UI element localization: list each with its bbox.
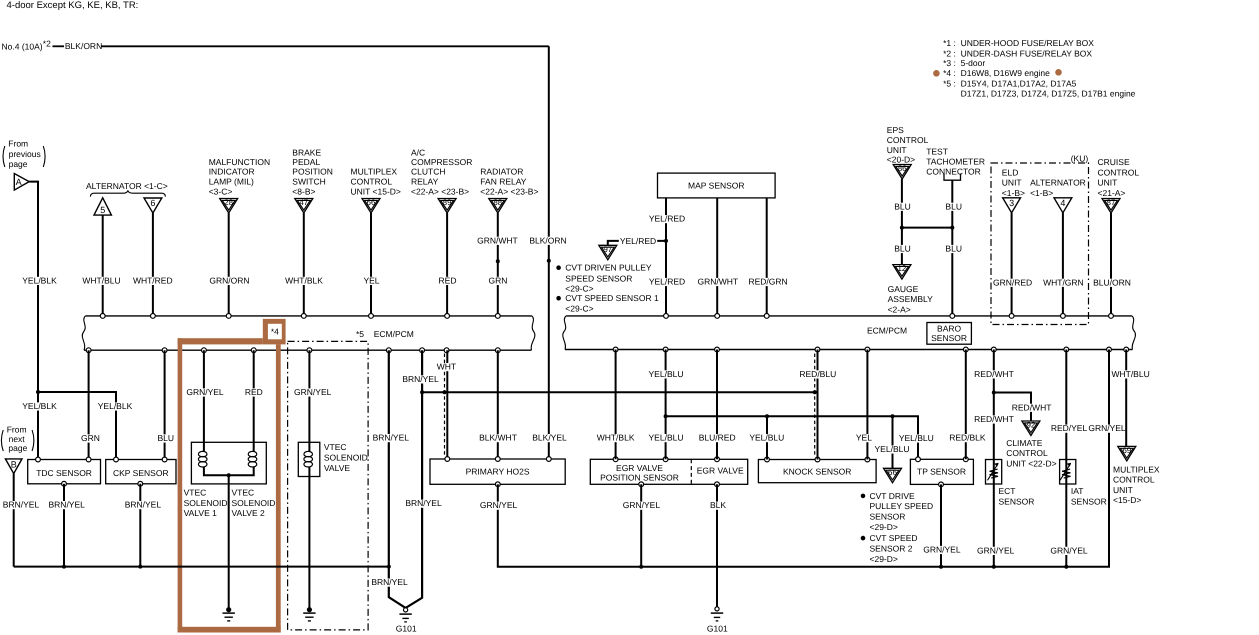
- svg-text:*2 :: *2 :: [943, 48, 956, 58]
- svg-text:UNIT: UNIT: [887, 145, 907, 155]
- svg-text:SPEED SENSOR: SPEED SENSOR: [565, 273, 632, 283]
- svg-text:YEL/BLK: YEL/BLK: [98, 401, 133, 411]
- svg-text:WHT/BLU: WHT/BLU: [1111, 369, 1149, 379]
- connector triangle B: [5, 459, 22, 474]
- label YEL/RED upper: [648, 214, 686, 224]
- wire GRN/ORN MIL to ECM: [228, 213, 230, 316]
- wire RED ECM to VTEC solenoid valve 2: [253, 350, 255, 452]
- svg-text:VALVE 2: VALVE 2: [232, 508, 266, 518]
- ground VTEC valves: [226, 607, 231, 612]
- wire WHT/BLK brake switch to ECM: [303, 213, 305, 316]
- connector triangle 69 multiplex: [1118, 446, 1136, 461]
- label RED/GRN MAP: [748, 277, 789, 287]
- svg-text:BRN/YEL: BRN/YEL: [371, 577, 408, 587]
- svg-text:G101: G101: [707, 623, 728, 633]
- label RED: [438, 275, 458, 285]
- wire YEL/RED triangle 97 branch to MAP wire: [608, 241, 666, 245]
- wire RED A/C relay to ECM: [446, 213, 448, 316]
- svg-text:KNOCK SENSOR: KNOCK SENSOR: [783, 467, 852, 477]
- svg-text:CONTROL: CONTROL: [887, 135, 929, 145]
- svg-text:89: 89: [443, 198, 452, 207]
- svg-text:WHT/BLK: WHT/BLK: [285, 275, 323, 285]
- svg-text:ALTERNATOR <1-C>: ALTERNATOR <1-C>: [86, 181, 168, 191]
- svg-text:SOLENOID: SOLENOID: [324, 453, 368, 463]
- wire RED/WHT branch to climate control: [994, 393, 1031, 422]
- svg-text:RED/WHT: RED/WHT: [1012, 402, 1052, 412]
- svg-text:GRN/WHT: GRN/WHT: [697, 277, 738, 287]
- connector triangle 6 alternator: [144, 198, 162, 213]
- svg-text:*5 :: *5 :: [943, 78, 956, 88]
- primary HO2S box: [430, 459, 565, 484]
- svg-text:BRN/YEL: BRN/YEL: [402, 374, 439, 384]
- svg-text:CLIMATE: CLIMATE: [1006, 438, 1043, 448]
- svg-text:LAMP (MIL): LAMP (MIL): [209, 177, 254, 187]
- wire BLU/RED ECM to EGR valve: [716, 350, 718, 460]
- label GRN/YEL IAT: [1049, 545, 1088, 555]
- svg-text:69: 69: [1122, 446, 1131, 455]
- svg-text:CONTROL: CONTROL: [1098, 168, 1140, 178]
- svg-text:VTEC: VTEC: [232, 487, 255, 497]
- label BLU EPS upper: [893, 201, 912, 211]
- svg-text:G101: G101: [396, 623, 417, 633]
- wire BLK/ORN horizontal run: [102, 45, 549, 47]
- label RED/WHT branch: [1011, 402, 1053, 412]
- EGR pins: [613, 457, 618, 462]
- svg-text:UNDER-HOOD FUSE/RELAY BOX: UNDER-HOOD FUSE/RELAY BOX: [961, 38, 1095, 48]
- svg-text:4: 4: [1060, 198, 1065, 208]
- svg-text:<22-A> <23-B>: <22-A> <23-B>: [411, 187, 469, 197]
- wire GRN/YEL ECM to single VTEC solenoid valve: [308, 350, 310, 452]
- ground single VTEC valve: [307, 607, 312, 612]
- svg-text:D15Y4, D17A1,D17A2, D17A5: D15Y4, D17A1,D17A2, D17A5: [961, 78, 1077, 88]
- junction TP to GRN/YEL bus: [939, 565, 943, 569]
- svg-text:UNIT <15-D>: UNIT <15-D>: [351, 187, 401, 197]
- wire BLK/WHT ECM to HO2S: [497, 350, 499, 459]
- svg-text:BARO: BARO: [937, 323, 961, 333]
- svg-text:TDC SENSOR: TDC SENSOR: [36, 468, 92, 478]
- svg-text:GRN: GRN: [489, 275, 508, 285]
- label GRN/YEL single vtec: [293, 387, 332, 397]
- svg-text:TEST: TEST: [926, 146, 948, 156]
- label YEL/BLK: [21, 275, 58, 285]
- wire YEL multiplex to ECM: [370, 213, 372, 316]
- ground G101 EGR valve: [715, 607, 719, 611]
- svg-text:*4: *4: [271, 326, 279, 336]
- junction IAT to GRN/YEL bus: [1064, 565, 1068, 569]
- svg-text:GRN/YEL: GRN/YEL: [480, 500, 518, 510]
- wire BRN/YEL ECM left ground wire: [389, 350, 406, 608]
- svg-text:EPS: EPS: [887, 125, 904, 135]
- svg-text:No.4 (10A): No.4 (10A): [2, 41, 43, 51]
- svg-text:INDICATOR: INDICATOR: [209, 167, 255, 177]
- MAP sensor box: [658, 173, 776, 198]
- svg-text:*4 :: *4 :: [943, 68, 956, 78]
- svg-text:86: 86: [898, 164, 907, 173]
- junction ECT to GRN/YEL bus: [992, 565, 996, 569]
- svg-text:92: 92: [1026, 421, 1035, 430]
- svg-text:BLU: BLU: [158, 433, 175, 443]
- svg-text:YEL/RED: YEL/RED: [620, 236, 656, 246]
- svg-text:4-door Except KG, KE, KB, TR:: 4-door Except KG, KE, KB, TR:: [7, 0, 139, 11]
- wire common of VTEC valves: [204, 467, 254, 476]
- svg-text:66: 66: [367, 198, 376, 207]
- svg-text:BLK/WHT: BLK/WHT: [479, 433, 517, 443]
- label RED/YEL: [1050, 423, 1088, 433]
- label RED vtec2: [244, 387, 264, 397]
- label GRN/WHT MAP: [697, 277, 740, 287]
- coil single VTEC solenoid valve: [304, 451, 313, 456]
- svg-text:D17Z1, D17Z3, D17Z4, D17Z5, D1: D17Z1, D17Z3, D17Z4, D17Z5, D17B1 engine: [961, 88, 1136, 98]
- label GRN: [488, 275, 509, 285]
- ECM right bottom pins: [613, 347, 618, 352]
- svg-text:<29-D>: <29-D>: [870, 522, 898, 532]
- label BRN/YEL B wire: [2, 500, 40, 510]
- ground bus BRN/YEL left: [14, 566, 389, 568]
- orange highlight box *4: [178, 338, 183, 632]
- svg-text:RED/GRN: RED/GRN: [748, 277, 787, 287]
- label RED/BLK: [948, 433, 986, 443]
- svg-text:BLU: BLU: [945, 201, 962, 211]
- ECT sensor thermistor: [986, 460, 1002, 485]
- label GRN/ORN: [208, 275, 250, 285]
- label BRN/YEL x422: [401, 374, 439, 384]
- svg-text:YEL: YEL: [363, 275, 379, 285]
- connector triangle 12 gauge assembly: [893, 265, 911, 280]
- wire GRN ECM to TDC sensor: [88, 350, 90, 459]
- wire BLU tachometer to ECM: [951, 180, 953, 316]
- svg-text:GRN: GRN: [81, 433, 100, 443]
- svg-text:VTEC: VTEC: [324, 442, 347, 452]
- label WHT/BLK: [284, 275, 324, 285]
- bullet list CVT drive sensors <29-D>: [861, 494, 866, 499]
- label BLU/RED: [698, 433, 737, 443]
- svg-text:UNIT: UNIT: [1002, 178, 1022, 188]
- label BLU: [157, 433, 176, 443]
- svg-text:*2: *2: [43, 38, 51, 48]
- svg-text:ASSEMBLY: ASSEMBLY: [888, 294, 934, 304]
- connector triangle 66 CVT sensors: [884, 468, 902, 483]
- TP sensor box: [910, 459, 973, 484]
- label WHT/BLU: [1110, 369, 1150, 379]
- svg-text:SOLENOID: SOLENOID: [184, 498, 228, 508]
- CKP pins: [114, 457, 119, 462]
- svg-text:CRUISE: CRUISE: [1098, 157, 1130, 167]
- svg-text:PEDAL: PEDAL: [292, 157, 320, 167]
- wire BLK EGR valve to ground: [716, 484, 718, 606]
- svg-text:CVT DRIVEN PULLEY: CVT DRIVEN PULLEY: [565, 263, 652, 273]
- svg-text:*3 :: *3 :: [943, 58, 956, 68]
- svg-text:CONNECTOR: CONNECTOR: [926, 167, 981, 177]
- EGR valve position sensor and EGR valve box: [590, 459, 747, 484]
- ECM/PCM right connector strip: [566, 315, 1132, 317]
- connector triangle 3 ELD: [1003, 198, 1021, 213]
- svg-text:<29-C>: <29-C>: [565, 283, 593, 293]
- junction CKP ground: [138, 565, 142, 569]
- svg-text:5-door: 5-door: [961, 58, 986, 68]
- svg-text:EGR VALVE: EGR VALVE: [616, 463, 663, 473]
- svg-text:PRIMARY HO2S: PRIMARY HO2S: [466, 466, 530, 476]
- label YEL/BLU at EGR: [648, 433, 685, 443]
- label GRN/YEL HO2S: [479, 500, 518, 510]
- wire YEL/BLU ECM to EGR position sensor: [665, 350, 667, 460]
- svg-text:SWITCH: SWITCH: [292, 177, 326, 187]
- svg-text:<3-C>: <3-C>: [209, 187, 233, 197]
- coil VTEC solenoid valve 2: [248, 451, 257, 456]
- IAT sensor thermistor: [1060, 460, 1076, 485]
- svg-text:SENSOR: SENSOR: [931, 333, 967, 343]
- label YEL/BLU upper: [648, 369, 685, 379]
- svg-text:BLK/YEL: BLK/YEL: [532, 433, 567, 443]
- svg-text:YEL: YEL: [856, 433, 872, 443]
- svg-text:YEL/BLK: YEL/BLK: [22, 275, 57, 285]
- svg-text:SENSOR: SENSOR: [1071, 496, 1107, 506]
- svg-text:ECM/PCM: ECM/PCM: [867, 325, 907, 335]
- svg-text:GRN/YEL: GRN/YEL: [977, 545, 1015, 555]
- VTEC solenoid valve 1 and 2 box: [191, 442, 266, 484]
- label BLU EPS lower: [893, 244, 912, 254]
- svg-text:page: page: [8, 443, 27, 453]
- label YEL/RED lower: [648, 277, 686, 287]
- svg-text:VTEC: VTEC: [184, 487, 207, 497]
- label GRN/RED: [992, 277, 1033, 287]
- svg-text:IAT: IAT: [1071, 486, 1084, 496]
- svg-text:CONTROL: CONTROL: [1006, 448, 1048, 458]
- svg-text:SENSOR: SENSOR: [999, 496, 1035, 506]
- svg-text:ECT: ECT: [999, 486, 1016, 496]
- BARO sensor box: [927, 323, 972, 345]
- wire RED/WHT ECM to ECT sensor and bus: [993, 350, 995, 567]
- svg-text:BRN/YEL: BRN/YEL: [405, 498, 442, 508]
- knock pins: [765, 457, 770, 462]
- connector triangle 92 climate control: [1022, 421, 1040, 436]
- connector triangle 86 EPS: [893, 165, 911, 180]
- junction YEL/BLU CVT branch: [891, 414, 895, 418]
- wire GRN/YEL TP to bus: [940, 484, 942, 566]
- svg-text:<21-A>: <21-A>: [1098, 188, 1126, 198]
- wire WHT/BLU alternator-5 to ECM: [102, 215, 104, 316]
- svg-text:RED/YEL: RED/YEL: [1051, 423, 1088, 433]
- svg-text:RADIATOR: RADIATOR: [480, 167, 523, 177]
- junction YEL/BLK branch: [36, 390, 40, 394]
- label RED/WHT lower: [973, 414, 1015, 424]
- svg-text:YEL/BLU: YEL/BLU: [649, 369, 684, 379]
- svg-text:GRN/WHT: GRN/WHT: [477, 235, 518, 245]
- svg-text:BLU/ORN: BLU/ORN: [1093, 277, 1131, 287]
- wire YEL/BLK branch to CKP sensor: [38, 392, 116, 460]
- ground G101 left: [404, 608, 408, 612]
- svg-text:COMPRESSOR: COMPRESSOR: [411, 157, 472, 167]
- svg-text:87: 87: [1107, 198, 1116, 207]
- wire YEL/BLU run to TP sensor: [666, 416, 918, 459]
- label BRN/YEL near G101 right wire: [404, 498, 442, 508]
- svg-text:SENSOR 2: SENSOR 2: [870, 543, 913, 553]
- svg-text:97: 97: [603, 245, 612, 254]
- svg-text:<15-D>: <15-D>: [1113, 495, 1141, 505]
- junction TDC ground: [62, 565, 66, 569]
- svg-text:RELAY: RELAY: [411, 177, 439, 187]
- wire YEL/BLU to triangle 66: [892, 416, 894, 468]
- wire WHT/BLK ECM to EGR position sensor: [615, 350, 617, 460]
- svg-text:TACHOMETER: TACHOMETER: [926, 157, 985, 167]
- svg-text:SOLENOID: SOLENOID: [232, 498, 276, 508]
- svg-text:WHT/RED: WHT/RED: [133, 275, 173, 285]
- wire BLK/ORN vertical drop to HO2S: [548, 46, 550, 459]
- svg-text:BLU: BLU: [894, 201, 911, 211]
- svg-text:28: 28: [224, 198, 233, 207]
- TDC sensor box: [28, 460, 101, 484]
- connector triangle 66 multiplex: [362, 199, 380, 214]
- svg-text:BLU: BLU: [894, 244, 911, 254]
- wire BLU/ORN cruise to ECM: [1110, 213, 1112, 316]
- label YEL/BLK at TDC: [21, 401, 58, 411]
- wire GRN/WHT radiator fan relay to ECM: [497, 213, 499, 316]
- label YEL/RED on branch: [619, 236, 657, 246]
- wire WHT ECM to primary HO2S: [446, 350, 448, 459]
- svg-text:<2-A>: <2-A>: [888, 304, 911, 314]
- svg-text:VALVE: VALVE: [324, 463, 350, 473]
- svg-text:A: A: [16, 177, 22, 187]
- svg-text:CVT SPEED SENSOR 1: CVT SPEED SENSOR 1: [565, 293, 659, 303]
- connector triangle 5 alternator: [94, 198, 111, 215]
- svg-text:RED: RED: [245, 387, 263, 397]
- label GRN/YEL TP: [922, 545, 961, 555]
- junction climate branch: [992, 391, 996, 395]
- label BLK: [709, 500, 727, 510]
- label RED/BLU: [798, 369, 837, 379]
- wire GRN/YEL HO2S to bus: [498, 350, 1109, 567]
- svg-text:From: From: [8, 139, 28, 149]
- svg-text:BRN/YEL: BRN/YEL: [3, 500, 40, 510]
- svg-text:previous: previous: [9, 149, 41, 159]
- svg-text:3: 3: [1009, 198, 1014, 208]
- bullet list CVT sensors <29-C>: [556, 265, 561, 270]
- svg-text:FAN RELAY: FAN RELAY: [480, 177, 526, 187]
- svg-text:RED/WHT: RED/WHT: [974, 414, 1014, 424]
- svg-text:YEL/BLK: YEL/BLK: [22, 401, 57, 411]
- junction YEL/BLU branch line: [664, 414, 668, 418]
- orange marker dot right of *4 line: [1055, 69, 1062, 76]
- svg-text:12: 12: [897, 264, 906, 273]
- svg-text:BLU: BLU: [945, 244, 962, 254]
- ECM left top pins: [100, 314, 105, 319]
- label WHT/BLU: [81, 275, 121, 285]
- ECM right top pins: [664, 314, 669, 319]
- svg-text:(KU): (KU): [1071, 153, 1089, 163]
- label YEL/BLK at CKP: [97, 401, 134, 411]
- connector triangle 87 cruise: [1102, 199, 1120, 214]
- wire YEL/BLK from A to TDC sensor: [29, 182, 38, 460]
- svg-text:WHT/BLK: WHT/BLK: [597, 433, 635, 443]
- brace under alternator label: [90, 191, 165, 197]
- svg-text:CKP SENSOR: CKP SENSOR: [113, 468, 169, 478]
- label WHT/GRN: [1042, 277, 1085, 287]
- svg-text:GRN/YEL: GRN/YEL: [1050, 545, 1088, 555]
- wire GRN/YEL ECM to VTEC solenoid valve 1: [203, 350, 205, 452]
- svg-text:WHT: WHT: [437, 362, 456, 372]
- shield dashed HO2S: [444, 354, 446, 457]
- svg-text:<1-B>: <1-B>: [1002, 188, 1025, 198]
- label BLK/ORN vertical: [528, 235, 567, 245]
- svg-text:VALVE 1: VALVE 1: [184, 508, 218, 518]
- shield dashed knock: [814, 354, 816, 457]
- svg-text:BRN/YEL: BRN/YEL: [373, 433, 410, 443]
- label RED/WHT upper: [973, 369, 1015, 379]
- wire RED/BLU ECM to knock sensor: [817, 350, 819, 460]
- svg-text:BLK: BLK: [710, 500, 726, 510]
- label GRN/YEL riser: [1088, 423, 1126, 433]
- wire VTEC common to ground: [228, 475, 230, 607]
- wire YEL ECM to knock sensor: [866, 350, 868, 460]
- label YEL: [362, 275, 380, 285]
- label BRN/YEL x389 upper: [372, 433, 410, 443]
- wire fuse to BLK/ORN label: [53, 45, 65, 47]
- svg-text:D16W8, D16W9 engine: D16W8, D16W9 engine: [961, 68, 1051, 78]
- splice GRN/WHT to GRN: [496, 259, 500, 263]
- label BRN/YEL x389 lower: [370, 577, 408, 587]
- svg-text:SENSOR: SENSOR: [870, 512, 906, 522]
- svg-text:RED: RED: [439, 275, 457, 285]
- wire BRN/YEL from B to ground bus: [13, 474, 15, 567]
- ECM left bottom pins: [86, 348, 91, 353]
- svg-text:BRN/YEL: BRN/YEL: [49, 500, 86, 510]
- wire BRN/YEL ECM right ground wire: [406, 350, 423, 608]
- svg-text:CVT SPEED: CVT SPEED: [870, 533, 918, 543]
- label GRN/YEL vtec1: [185, 387, 224, 397]
- svg-text:47: 47: [299, 198, 308, 207]
- svg-text:ELD: ELD: [1002, 168, 1019, 178]
- svg-text:UNIT: UNIT: [1098, 178, 1118, 188]
- wire BLU bridge: [902, 227, 952, 229]
- svg-text:GRN/YEL: GRN/YEL: [923, 545, 961, 555]
- wire WHT/RED alternator-6 to ECM: [152, 213, 154, 316]
- svg-text:EGR VALVE: EGR VALVE: [697, 466, 744, 476]
- svg-text:page: page: [9, 159, 28, 169]
- svg-text:<22-A> <23-B>: <22-A> <23-B>: [480, 187, 538, 197]
- svg-text:ECM/PCM: ECM/PCM: [374, 329, 414, 339]
- svg-text:UNDER-DASH FUSE/RELAY BOX: UNDER-DASH FUSE/RELAY BOX: [961, 48, 1093, 58]
- TDC pins: [36, 457, 41, 462]
- junction BRN/YEL shield ground branch: [420, 390, 424, 394]
- TP pins: [916, 457, 921, 462]
- label YEL knock: [855, 433, 873, 443]
- wire GRN/WHT MAP pin2 to ECM: [716, 198, 718, 316]
- junction VTEC common: [227, 473, 231, 477]
- svg-text:YEL/BLU: YEL/BLU: [899, 433, 934, 443]
- svg-text:YEL/BLU: YEL/BLU: [649, 433, 684, 443]
- wire CKP sensor ground: [139, 484, 141, 567]
- svg-text:RED/BLU: RED/BLU: [799, 369, 836, 379]
- label GRN/YEL ECT: [976, 545, 1015, 555]
- connector triangle 88 radiator fan relay: [489, 199, 507, 214]
- svg-text:GRN/YEL: GRN/YEL: [1088, 423, 1126, 433]
- svg-text:YEL/BLU: YEL/BLU: [875, 444, 910, 454]
- svg-text:CONTROL: CONTROL: [351, 177, 393, 187]
- CKP sensor box: [106, 460, 176, 484]
- label BLU/ORN: [1092, 277, 1132, 287]
- junction BLU bridge left: [900, 226, 904, 230]
- label BRN/YEL TDC: [48, 500, 86, 510]
- KU option box: [991, 163, 1089, 325]
- svg-text:BRN/YEL: BRN/YEL: [125, 500, 162, 510]
- connector triangle 4 alternator KU: [1054, 198, 1072, 213]
- junction bus to G101 wire: [387, 565, 391, 569]
- svg-text:B: B: [11, 459, 17, 469]
- svg-text:GRN/ORN: GRN/ORN: [209, 275, 249, 285]
- junction shield drain knock: [813, 390, 817, 394]
- wire RED/GRN MAP pin3 to ECM: [766, 198, 768, 316]
- label GRN: [80, 433, 101, 443]
- svg-text:YEL/RED: YEL/RED: [649, 277, 685, 287]
